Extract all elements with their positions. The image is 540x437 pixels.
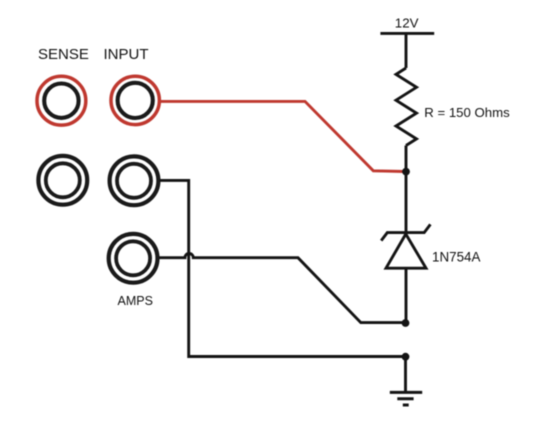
zener diode D1 cathode bar with bent ends	[381, 224, 430, 240]
resistor R1	[396, 68, 417, 146]
wire node C to ground	[404, 357, 407, 392]
terminal AMPS label	[118, 294, 153, 308]
wire resistor R1 bottom to node A	[405, 146, 408, 172]
value label 1N754A	[432, 249, 480, 264]
junction node C (bottom wire / ground)	[402, 353, 410, 361]
power rail 12V bar	[380, 32, 434, 35]
terminal INPUT label	[104, 46, 149, 63]
terminal SENSE label	[38, 46, 89, 63]
wire node A to zener D1 cathode	[405, 172, 408, 233]
svg-text:R = 150 Ohms: R = 150 Ohms	[424, 105, 510, 120]
svg-text:12V: 12V	[395, 15, 419, 30]
terminal jack black (below INPUT)	[110, 156, 159, 205]
terminal jack black (below SENSE)	[38, 156, 87, 205]
wire red INPUT jack to node A	[161, 101, 405, 171]
terminal jack AMPS (black)	[109, 234, 158, 283]
svg-text:1N754A: 1N754A	[432, 249, 480, 264]
wire black jack (below INPUT) to node C: right, down, right	[160, 180, 403, 356]
wire 12V rail to resistor R1 top	[405, 33, 408, 68]
value label R = 150 Ohms	[424, 105, 510, 120]
wire zener D1 anode to node B	[405, 268, 408, 323]
wire AMPS jack to node B with hop over vertical wire	[160, 254, 404, 323]
ground	[390, 392, 422, 405]
junction node B (zener anode / AMPS wire)	[402, 319, 410, 327]
terminal jack INPUT (red)	[111, 76, 159, 124]
zener diode D1 anode triangle	[386, 234, 426, 268]
svg-text:SENSE: SENSE	[38, 46, 89, 63]
svg-text:AMPS: AMPS	[118, 294, 153, 308]
node 12V supply label	[395, 15, 419, 30]
junction node A (resistor / zener / red wire)	[402, 168, 410, 176]
terminal jack SENSE (red)	[37, 76, 86, 125]
svg-text:INPUT: INPUT	[104, 46, 149, 63]
